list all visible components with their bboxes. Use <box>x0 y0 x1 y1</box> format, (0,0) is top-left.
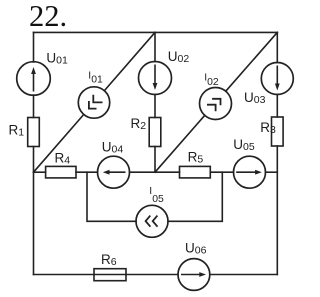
wire left mid <box>33 95 35 118</box>
wire diagonal D2 upper <box>226 32 277 90</box>
resistor R1 <box>28 118 40 147</box>
wire bottom left <box>34 274 179 276</box>
resistor R6 <box>94 269 126 281</box>
current source I01 <box>78 87 109 118</box>
wire bottom right <box>210 274 277 276</box>
wire middle row: U04 to center node <box>130 171 156 173</box>
wire diagonal D1 lower <box>34 115 84 172</box>
wire middle row: R5 to U05 <box>210 171 233 173</box>
wire diagonal D1 upper <box>105 32 155 90</box>
voltage source U02 <box>139 62 172 95</box>
resistor R5 <box>180 166 211 178</box>
current source I02 <box>200 88 232 120</box>
voltage source U01 <box>17 62 51 96</box>
resistor R3 <box>272 117 284 146</box>
wire middle vertical mid <box>154 95 156 118</box>
wire middle vertical bottom <box>154 147 156 173</box>
wire middle row: left node to R4 <box>34 171 46 173</box>
wire left bottom <box>33 147 35 275</box>
svg-text:22.: 22. <box>29 0 67 33</box>
wire I05 loop left <box>87 172 136 221</box>
voltage source U04 <box>98 156 130 188</box>
voltage source U05 <box>234 156 266 188</box>
wire left top <box>33 32 35 62</box>
voltage source U03 <box>261 63 293 95</box>
wire middle row: U05 to right node <box>266 171 278 173</box>
current source I05 <box>136 205 168 237</box>
wire middle row: center node to R5 <box>155 171 180 173</box>
wire I05 loop right <box>168 172 222 221</box>
wire middle row: R4 to U04 <box>76 171 98 173</box>
wire right top <box>276 32 278 62</box>
resistor R4 <box>46 166 76 178</box>
wire diagonal D2 lower <box>155 115 205 172</box>
wire right mid <box>276 95 278 118</box>
wire right bottom <box>276 146 278 275</box>
voltage source U06 <box>178 259 210 291</box>
resistor R2 <box>149 118 161 147</box>
wire top <box>34 31 278 33</box>
wire middle vertical top <box>154 32 156 61</box>
